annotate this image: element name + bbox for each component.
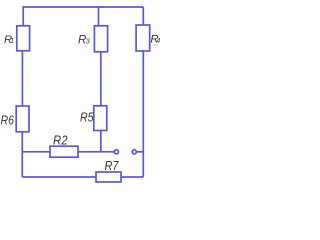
wire bottom left — [22, 176, 96, 178]
wire R2 feed from left branch — [22, 151, 50, 153]
resistor R2 — [50, 146, 78, 157]
wire contact to right branch — [136, 151, 143, 153]
resistor R3 — [94, 26, 107, 52]
svg-text:R1: R1 — [4, 34, 14, 46]
wire top bus — [22, 6, 143, 8]
svg-text:R6: R6 — [1, 112, 15, 127]
resistor R7 — [96, 172, 121, 182]
contact terminal right — [132, 150, 136, 154]
svg-text:R7: R7 — [105, 158, 120, 173]
resistor R5 — [94, 106, 107, 131]
stray faint mark near R4 — [154, 44, 159, 45]
wire R2 to contact — [78, 151, 114, 153]
svg-text:R5: R5 — [80, 110, 94, 125]
wire left branch upper — [22, 7, 24, 26]
resistor R4 — [136, 25, 150, 51]
wire left branch lower — [21, 132, 23, 177]
wire right branch lower — [142, 51, 144, 177]
wire middle branch middle — [100, 52, 102, 106]
contact terminal left — [114, 150, 118, 154]
wire bottom right — [121, 176, 143, 178]
wire middle branch lower — [100, 131, 102, 153]
wire middle branch upper — [98, 7, 100, 26]
resistor R1 — [17, 26, 30, 51]
svg-text:R2: R2 — [53, 133, 68, 148]
wire right branch upper — [142, 7, 144, 25]
wire left branch middle — [21, 51, 23, 106]
svg-text:R3: R3 — [78, 33, 90, 46]
svg-text:R4: R4 — [150, 34, 160, 46]
resistor R6 — [16, 106, 29, 132]
